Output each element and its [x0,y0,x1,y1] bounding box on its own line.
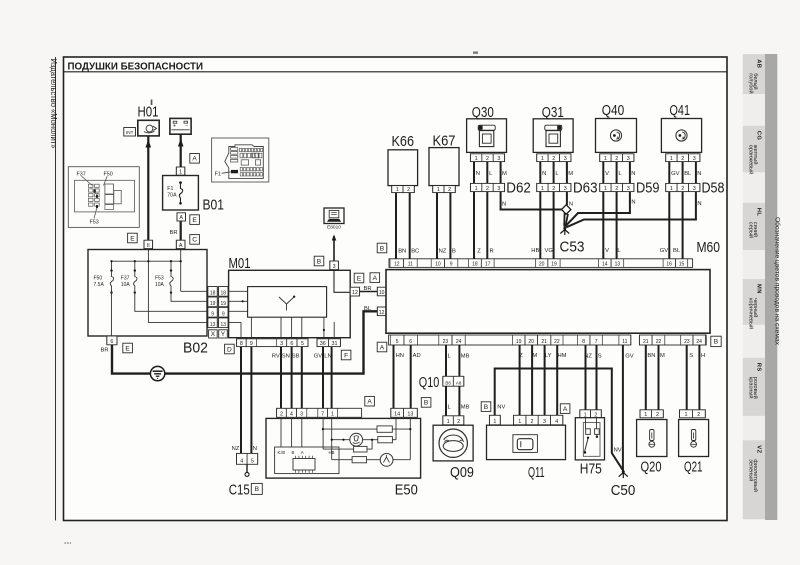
svg-text:3: 3 [497,186,500,192]
svg-text:6: 6 [409,339,412,345]
svg-text:7: 7 [595,339,598,345]
svg-text:+: + [173,124,176,130]
svg-text:11: 11 [622,339,627,345]
svg-text:1: 1 [475,156,478,162]
svg-text:2: 2 [457,419,460,425]
svg-text:Q30: Q30 [472,104,494,121]
svg-text:2: 2 [486,156,489,162]
svg-text:3: 3 [543,419,546,425]
wires M60 to Q11 [519,345,566,415]
svg-text:D: D [227,346,232,353]
svg-text:C53: C53 [560,239,585,256]
connector 1 on B01 [176,167,185,175]
svg-text:Q40: Q40 [602,102,625,119]
svg-text:3: 3 [280,341,283,347]
svg-text:BN: BN [398,248,406,254]
M60 left pin 12 [377,307,386,316]
wires Q31 to D63 [540,162,573,184]
marker B right of M60 bottom row [711,336,721,346]
svg-text:N: N [631,199,635,205]
M60 left pin 10 [377,287,386,296]
M01 internal squib box [248,287,327,318]
Q40 connector [600,154,634,162]
marker C [190,235,200,245]
svg-text:1: 1 [541,156,544,162]
svg-text:1: 1 [604,156,607,162]
marker B near Q11 pin 1 [481,402,491,412]
svg-text:C15: C15 [229,482,250,499]
svg-text:2: 2 [656,412,659,418]
svg-text:N: N [502,201,506,207]
svg-text:MB: MB [461,354,470,360]
svg-text:1: 1 [604,186,607,192]
junction box B02 [88,250,208,357]
svg-text:BL: BL [364,306,372,312]
wire to diagnostic E8010 [332,235,337,262]
wires K66 to M60 [396,193,419,259]
svg-text:6: 6 [290,341,293,347]
key switch H75 [575,418,604,478]
svg-text:BN: BN [647,353,655,359]
svg-text:8: 8 [240,341,243,347]
Q11 pin 1 connector [489,415,500,425]
M60 top connector row [389,259,693,268]
svg-text:7.5A: 7.5A [94,282,105,288]
INT marker [124,128,136,137]
svg-text:6: 6 [110,339,113,345]
lamp unit H01 [138,104,160,136]
connector D63 [537,181,598,197]
BL label near M60 pin12 [364,306,372,312]
svg-text:5: 5 [251,459,254,465]
svg-text:BL: BL [673,248,681,254]
svg-text:C: C [192,237,197,244]
svg-text:23: 23 [443,339,449,345]
svg-text:M: M [660,353,665,359]
fuse F53 10A [155,269,173,293]
connector 3 on M01 top [330,261,339,270]
svg-text:RS: RS [756,363,762,372]
svg-text:HM: HM [558,353,567,359]
buzzer icon in E50 [380,454,393,467]
svg-text:X: X [211,331,216,338]
svg-text:20: 20 [528,339,534,345]
svg-text:12: 12 [352,290,358,296]
svg-text:2: 2 [615,186,618,192]
svg-text:B: B [380,245,385,252]
marker B at connector 3 [314,256,324,266]
marker A above E50 [365,396,375,406]
svg-text:D63: D63 [573,181,598,197]
svg-text:1: 1 [493,419,496,425]
resistor R2 in E50 [378,437,393,443]
svg-text:2: 2 [681,186,684,192]
fuse panel inset F1 [212,138,269,182]
svg-text:1: 1 [447,419,450,425]
svg-text:LY: LY [545,353,552,359]
relay K66 [388,133,418,186]
wire BR M01 to M60 pin10 [360,286,378,292]
svg-text:14: 14 [602,262,608,268]
svg-text:8: 8 [582,339,585,345]
svg-text:Z: Z [477,248,481,254]
svg-text:МN: МN [756,284,762,294]
svg-text:HB: HB [531,248,539,254]
Q20 connector [640,410,663,418]
svg-text:INT: INT [126,130,134,135]
svg-text:HN: HN [396,353,404,359]
svg-text:13: 13 [210,322,216,328]
svg-text:F: F [344,352,348,359]
svg-text:2: 2 [531,419,534,425]
svg-text:4: 4 [240,459,243,465]
svg-text:B: B [292,450,295,455]
svg-text:23: 23 [684,339,690,345]
battery [170,118,191,134]
M01 internal wiring [229,291,335,339]
svg-text:НL: НL [756,208,762,217]
svg-text:1: 1 [644,412,647,418]
svg-text:D59: D59 [636,181,660,197]
svg-text:MB: MB [461,405,470,411]
wires Q10 to Q09 [446,386,470,416]
fuse F50 7.5A [94,269,114,293]
svg-text:1: 1 [670,186,673,192]
svg-text:N: N [697,201,701,207]
svg-text:фиолетовый: фиолетовый [752,459,759,492]
connector D62 [470,181,530,197]
marker B below Q10 [421,398,431,408]
E50 internal module box [275,447,339,474]
marker E below B02 [123,343,133,353]
svg-text:F53: F53 [90,220,99,226]
svg-text:16: 16 [666,262,672,268]
svg-text:E: E [125,345,130,352]
svg-text:B8: B8 [445,380,451,385]
Q41 connector [666,154,700,162]
wire H01 to B02 [146,136,152,240]
svg-text:VZ: VZ [756,445,762,453]
wires D58 to M60 [660,192,683,259]
svg-text:9: 9 [222,311,225,317]
marker A battery wire [190,154,200,164]
markers E A right of M01 [354,273,364,283]
side airbag Q40 [596,102,637,152]
wires M60 to Q21 [687,345,705,410]
wires M60 to Q10 [446,345,470,376]
marker X [209,330,218,338]
wire color legend strip [743,54,782,520]
svg-text:NZ: NZ [232,446,240,452]
svg-text:2: 2 [552,156,555,162]
svg-text:RV: RV [272,354,280,360]
svg-text:N: N [569,201,573,207]
marker E near II entry [128,233,138,243]
title airbags [68,61,204,73]
svg-text:E50: E50 [395,482,418,499]
wires M01 to C15 [232,347,257,454]
svg-text:BR: BR [101,348,109,354]
connector C15 [237,453,258,464]
svg-text:10A: 10A [155,282,165,288]
wire N from D58 to C53 [566,192,701,228]
svg-text:NZ: NZ [584,354,592,360]
svg-text:7: 7 [321,412,324,418]
svg-text:желтый: желтый [752,145,759,165]
wires M60 to H75 [584,345,602,410]
svg-text:E: E [357,275,362,282]
svg-text:E8010: E8010 [327,224,341,230]
body computer M60 [386,239,720,333]
svg-text:20: 20 [539,262,545,268]
svg-text:VG: VG [545,248,554,254]
svg-text:3: 3 [627,186,630,192]
connector II on B02 [144,240,153,249]
svg-text:1: 1 [475,186,478,192]
buckle switch Q21 [679,420,709,476]
diagnostic connector icon E8010 [324,208,344,230]
C15 ground stub [245,464,249,476]
M60 bottom connector row B [639,335,706,345]
svg-text:11: 11 [408,262,413,268]
svg-text:F37: F37 [77,172,86,178]
svg-text:R: R [490,248,494,254]
ground point C53 [560,226,585,256]
svg-text:H: H [701,353,705,359]
ground wire from B02 pin6 to M60 pin 12 [112,311,377,373]
svg-text:19: 19 [210,301,216,307]
svg-text:K30: K30 [278,450,286,455]
svg-text:B: B [424,400,429,407]
svg-text:3: 3 [693,186,696,192]
connector A below B01 [177,213,186,221]
label C15 [229,482,250,499]
marker B at C15 [251,483,262,494]
svg-text:B: B [714,339,719,346]
svg-text:SN: SN [282,354,290,360]
Q30 connector [470,154,504,162]
publisher margin text [49,59,58,150]
svg-text:10: 10 [435,262,441,268]
svg-text:1: 1 [396,187,399,193]
svg-text:Q21: Q21 [684,459,703,476]
svg-text:3: 3 [333,264,336,270]
svg-text:F53: F53 [155,276,164,282]
wires D59 to M60 [603,192,621,259]
svg-text:2: 2 [552,186,555,192]
svg-text:BL: BL [684,171,692,177]
wire N from D63 to junction [567,192,573,208]
wires Q40 to D59 [603,162,635,184]
ground point C50 [611,469,636,499]
svg-text:18: 18 [221,290,227,296]
svg-text:Z: Z [519,353,523,359]
svg-text:Q41: Q41 [670,102,691,119]
svg-text:1: 1 [179,169,182,175]
svg-text:B01: B01 [203,197,225,214]
svg-text:K66: K66 [392,133,415,150]
wire GV M60 pin 11 to C50 [623,345,634,470]
svg-text:M: M [568,171,573,177]
svg-text:−: − [185,124,188,130]
svg-text:18: 18 [210,290,216,296]
resistor R1 in E50 [377,426,392,432]
marker E below B01 [190,215,200,225]
svg-text:BR: BR [170,230,178,236]
marker A near H75 [560,404,570,414]
svg-text:10A: 10A [121,282,131,288]
junction diamond node [562,205,571,214]
wire labels RV SN SB GV LN [272,354,332,360]
H75 connector [580,410,602,419]
svg-text:3: 3 [564,156,567,162]
svg-text:10: 10 [379,290,385,296]
svg-text:C50: C50 [611,482,636,499]
svg-text:1: 1 [437,187,440,193]
svg-text:H01: H01 [138,104,159,121]
svg-text:S: S [598,354,602,360]
svg-text:Обозначение цветов проводов на: Обозначение цветов проводов на схемах [773,217,781,346]
marker F [341,350,351,360]
svg-text:S: S [689,353,693,359]
M60 bottom connector row A [389,335,631,345]
wires Q30 to D62 [474,162,507,184]
svg-text:синий: синий [752,222,759,237]
marker B left of M60 top row [377,243,387,253]
svg-text:V: V [605,248,609,254]
svg-text:2: 2 [280,412,283,418]
svg-text:3: 3 [497,156,500,162]
Q31 connector [537,154,571,162]
svg-text:СG: СG [756,131,762,141]
svg-text:24: 24 [456,339,462,345]
Q11 connector 1-4 [514,415,563,425]
svg-text:F1: F1 [215,172,221,178]
svg-text:36: 36 [320,341,326,347]
svg-text:3: 3 [627,156,630,162]
connector columns X Y [208,287,228,328]
svg-text:M: M [532,353,537,359]
svg-text:1: 1 [541,186,544,192]
svg-text:12: 12 [394,262,400,268]
pin 6 of B02 [107,336,117,345]
K66 connector [392,186,415,193]
svg-text:3: 3 [693,156,696,162]
svg-text:A: A [367,399,372,406]
svg-text:белый: белый [752,73,759,89]
marker Y [219,330,228,338]
resistor R4 in E50 [352,457,366,463]
K67 connector [433,186,456,193]
E50 internal wiring [281,417,411,459]
svg-text:4: 4 [290,412,293,418]
svg-text:5: 5 [301,341,304,347]
svg-text:N: N [253,446,257,452]
svg-text:M01: M01 [229,255,251,272]
svg-text:1: 1 [331,412,334,418]
passenger airbag module Q11 [487,425,566,481]
wires diamond to C53 ground [564,213,568,227]
svg-text:N: N [542,171,546,177]
svg-text:F1: F1 [167,186,173,192]
svg-text:F50: F50 [104,172,113,178]
svg-text:12: 12 [379,310,385,316]
diagram frame [56,52,728,544]
connector D59 [600,181,660,197]
svg-text:розовый: розовый [752,377,759,399]
svg-text:Q31: Q31 [542,104,564,121]
svg-text:SB: SB [292,354,300,360]
svg-text:9: 9 [450,262,453,268]
warning lamp icon in E50 [350,433,363,446]
svg-text:N: N [697,171,701,177]
svg-text:GV: GV [660,248,669,254]
NV label at Q11 [497,405,505,411]
svg-text:M: M [502,171,507,177]
svg-text:1: 1 [518,419,521,425]
svg-text:BC: BC [411,248,419,254]
svg-text:E: E [130,235,135,242]
svg-text:22: 22 [554,339,560,345]
svg-text:D58: D58 [702,181,725,197]
relay K67 [429,133,459,186]
airbag control unit M01 [229,255,351,338]
svg-text:Q09: Q09 [450,464,474,481]
svg-text:F37: F37 [121,276,130,282]
instrument cluster E50 [266,418,421,498]
B02 internal wires to X Y connectors [112,291,208,336]
driver airbag module Q09 [433,425,474,481]
BR label at B02 pin 6 [101,348,109,354]
svg-text:GV: GV [314,354,323,360]
chassis ground symbol on wire [150,366,164,380]
side airbag Q41 [661,102,701,152]
wires M60 to Q20 [646,345,665,410]
svg-text:15: 15 [679,262,685,268]
buckle switch Q20 [637,420,667,476]
svg-text:21: 21 [541,339,547,345]
connector D58 [666,181,725,197]
pretensioner Q31 [533,104,573,153]
svg-text:A: A [301,450,304,455]
svg-text:13: 13 [615,262,621,268]
svg-text:NV: NV [497,405,505,411]
svg-text:1: 1 [685,412,688,418]
wires D62 to M60 [474,192,494,259]
svg-text:Q11: Q11 [528,464,545,481]
svg-text:AD: AD [413,353,421,359]
svg-text:Y: Y [221,331,226,338]
svg-text:13: 13 [407,412,413,418]
svg-text:A8: A8 [456,380,462,385]
svg-text:H75: H75 [580,461,602,478]
fuse box B01 with fuse F1 70A [163,176,224,214]
wires D63 to M60 [531,192,553,259]
svg-text:A: A [373,275,378,282]
svg-text:70A: 70A [167,192,177,198]
marker A left of M60 bottom row [377,342,387,352]
svg-text:GV: GV [671,171,680,177]
svg-text:II: II [147,243,150,249]
marker D [225,344,235,354]
svg-text:3: 3 [300,412,303,418]
connector A on B02 [176,240,185,249]
svg-text:N: N [476,171,480,177]
svg-text:19: 19 [516,339,522,345]
svg-text:BR: BR [364,286,372,292]
svg-text:21: 21 [643,339,649,345]
svg-text:31: 31 [332,341,338,347]
